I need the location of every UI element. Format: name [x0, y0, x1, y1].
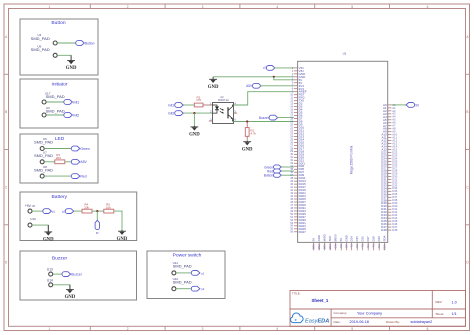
svg-text:R1: R1	[377, 244, 381, 248]
MCU U1 Mega 2560 Pro Mini body	[298, 61, 388, 242]
svg-text:D48: D48	[392, 228, 398, 232]
svg-text:D50: D50	[312, 244, 316, 250]
svg-text:SDA: SDA	[383, 244, 387, 250]
svg-text:4: 4	[276, 5, 278, 9]
wire Buzzer flag to chip	[277, 117, 294, 119]
svg-text:+9V: +9V	[25, 204, 32, 208]
svg-text:LED: LED	[55, 136, 65, 142]
net flag p2 (power switch)	[191, 286, 204, 291]
frame row ticks and letters	[4, 35, 470, 265]
svg-text:soldatrayan2: soldatrayan2	[411, 320, 433, 324]
ground (R1)	[242, 141, 253, 152]
svg-text:U13: U13	[47, 268, 53, 272]
Initiator block box	[20, 79, 98, 128]
net flag A5V (LED)	[71, 159, 87, 164]
svg-text:RS: RS	[345, 244, 349, 248]
svg-text:3: 3	[202, 327, 204, 331]
svg-text:Green: Green	[81, 147, 90, 151]
svg-text:PC817-1A: PC817-1A	[218, 99, 229, 102]
svg-text:Button: Button	[264, 174, 273, 178]
svg-text:B: B	[5, 110, 7, 114]
frame column ticks and numbers	[49, 4, 429, 331]
wire U7 to R3	[44, 161, 55, 163]
pad U17	[42, 91, 65, 104]
svg-text:170: 170	[196, 98, 201, 102]
svg-text:Init2: Init2	[73, 113, 79, 117]
resistor R4 10k	[82, 203, 92, 214]
svg-text:p2: p2	[201, 287, 205, 291]
wire R3 to A5V flag	[65, 161, 72, 163]
svg-text:Buzzer: Buzzer	[71, 273, 82, 277]
svg-text:Buzzer: Buzzer	[259, 116, 270, 120]
net flag Button	[76, 41, 95, 46]
svg-text:SMD_PAD: SMD_PAD	[34, 139, 53, 144]
pad U14	[47, 279, 53, 287]
LED block box	[20, 134, 98, 183]
svg-text:10k: 10k	[84, 205, 89, 209]
net flag Button (to chip)	[264, 173, 282, 177]
ground (Battery left)	[43, 225, 54, 242]
svg-text:U1: U1	[343, 52, 347, 56]
svg-text:EasyEDA: EasyEDA	[305, 319, 329, 325]
wire U8 to Red flag	[44, 175, 71, 177]
svg-text:TITLE:: TITLE:	[292, 292, 301, 296]
svg-text:10k: 10k	[106, 205, 111, 209]
svg-text:9V: 9V	[96, 232, 99, 235]
svg-text:GND: GND	[117, 237, 128, 242]
pad U10	[28, 217, 36, 227]
svg-text:p1: p1	[201, 271, 205, 275]
svg-text:T1: T1	[372, 244, 376, 248]
Battery block box	[20, 192, 137, 241]
svg-text:D51: D51	[323, 244, 327, 250]
net flag Red (to chip)	[267, 169, 281, 173]
svg-text:GND: GND	[43, 238, 54, 243]
ground (Button box)	[66, 55, 77, 71]
svg-text:1: 1	[49, 5, 51, 9]
MCU left pin column (pins 1-56 with names)	[290, 66, 307, 234]
net flag Init2	[64, 113, 80, 118]
pad U13	[47, 268, 53, 277]
MCU right pin column (A0-A15, D22-D48)	[381, 103, 398, 232]
svg-text:Initiator: Initiator	[51, 82, 67, 88]
junction node Init2/GND	[193, 112, 195, 114]
svg-text:Init2: Init2	[168, 112, 174, 116]
wire R2 to opto pin1	[203, 104, 213, 106]
svg-text:SMD_PAD: SMD_PAD	[46, 108, 65, 113]
svg-text:GND: GND	[189, 133, 200, 138]
net flag Green (to chip)	[264, 165, 281, 169]
svg-text:2: 2	[127, 5, 129, 9]
svg-text:SMD_PAD: SMD_PAD	[34, 153, 53, 158]
svg-text:4: 4	[276, 327, 278, 331]
pad U12	[172, 277, 192, 291]
svg-text:Your Company: Your Company	[357, 311, 382, 315]
wire U11 to p1 flag	[176, 272, 192, 274]
svg-text:GND: GND	[242, 147, 253, 152]
pad U5	[34, 137, 53, 151]
wire A5V flag to chip	[261, 85, 294, 87]
net flag Green	[71, 146, 90, 151]
junction node opto output	[246, 120, 248, 122]
svg-text:Init1: Init1	[168, 103, 174, 107]
wire U9 to p1 flag	[32, 210, 43, 212]
svg-text:Button: Button	[51, 20, 65, 26]
Buzzer block box	[20, 251, 137, 300]
net flag 9V (battery sense, vertical)	[95, 220, 99, 235]
svg-text:A5V: A5V	[81, 160, 88, 164]
svg-text:2: 2	[127, 327, 129, 331]
svg-text:5V: 5V	[339, 244, 343, 248]
wire opto pin6 to chip (output row)	[234, 121, 294, 123]
svg-text:1.0: 1.0	[452, 300, 457, 304]
wire Init1 to R2	[184, 104, 195, 106]
svg-text:200: 200	[56, 156, 61, 160]
svg-text:D047: D047	[299, 230, 307, 234]
wire U6 to ground	[57, 55, 71, 60]
svg-text:D52: D52	[317, 244, 321, 250]
wire chip A0 to 9V flag	[391, 104, 406, 106]
svg-text:U14: U14	[47, 279, 53, 283]
wire U17 to Init1 flag	[46, 101, 64, 103]
net flag Red	[71, 174, 86, 179]
EasyEDA logo	[291, 313, 330, 325]
svg-text:Power switch: Power switch	[173, 253, 202, 259]
pad U6	[31, 44, 58, 57]
pad U11	[172, 261, 192, 275]
svg-text:REV:: REV:	[436, 300, 443, 304]
wire U3 to Init2 flag	[46, 114, 64, 116]
op-amp U2 optocoupler PC817-1A	[209, 97, 237, 123]
Button block box	[20, 19, 98, 75]
wire p2 flag to R4	[74, 210, 82, 212]
svg-text:p1: p1	[52, 210, 55, 214]
net flag Init1 (center)	[168, 103, 183, 108]
svg-text:A5V: A5V	[246, 84, 253, 88]
wire GND rail drop to second GND pin	[274, 77, 294, 80]
svg-text:2019-06-18: 2019-06-18	[350, 320, 369, 324]
svg-text:5V: 5V	[339, 238, 343, 242]
svg-text:Date:: Date:	[334, 320, 341, 324]
svg-text:SCK: SCK	[328, 236, 332, 242]
svg-text:GND: GND	[317, 235, 321, 241]
Power switch block box	[147, 251, 225, 299]
net flag Buzzer (box)	[62, 272, 83, 277]
svg-text:MISO: MISO	[323, 233, 327, 241]
svg-text:GND: GND	[65, 295, 76, 300]
title block texts	[292, 292, 457, 325]
wire R5 to ground right	[114, 211, 122, 231]
svg-text:6: 6	[427, 327, 429, 331]
svg-text:SDA: SDA	[383, 236, 387, 242]
wire junction to 9V flag	[96, 211, 98, 220]
svg-text:GND: GND	[208, 85, 219, 90]
net flag Init2 (center)	[168, 111, 183, 116]
svg-text:D14: D14	[350, 236, 354, 242]
ground (Buzzer box)	[65, 285, 76, 300]
wire U14 to ground	[53, 285, 70, 290]
net flag p1 (power switch)	[191, 271, 204, 276]
svg-text:T3: T3	[350, 244, 354, 248]
svg-text:D17: D17	[366, 236, 370, 242]
wire U5 to Green flag	[44, 148, 71, 150]
svg-text:GND: GND	[345, 235, 349, 241]
resistor R5 10k	[104, 203, 114, 214]
wire opto pin4 to chip (collector to AREF row)	[234, 92, 294, 105]
svg-text:5V: 5V	[312, 238, 316, 242]
MCU bottom pin group 2	[350, 236, 387, 251]
wire U10 to ground	[32, 225, 48, 232]
svg-text:Init1: Init1	[73, 100, 79, 104]
svg-text:56: 56	[290, 230, 293, 234]
wire Green flag to chip	[281, 166, 294, 168]
svg-text:Button: Button	[85, 41, 95, 45]
svg-text:D16: D16	[361, 236, 365, 242]
pad U3	[42, 106, 65, 117]
junction node battery divider	[96, 210, 98, 212]
svg-text:SMD_PAD: SMD_PAD	[31, 36, 50, 41]
svg-text:Company:: Company:	[334, 311, 348, 315]
svg-text:5: 5	[351, 5, 353, 9]
resistor R2 170	[194, 95, 203, 107]
pad U9 +9V	[25, 204, 36, 213]
svg-text:e: e	[295, 318, 297, 322]
svg-text:GND: GND	[66, 66, 77, 71]
wire GND rail to chip	[213, 76, 294, 78]
resistor R1 4.7k (pull-down)	[245, 122, 256, 142]
svg-text:MOSI: MOSI	[334, 234, 338, 241]
wire U12 to p2 flag	[176, 288, 192, 290]
MCU bottom pin group 1	[312, 233, 349, 250]
resistor R3 200	[55, 153, 65, 164]
svg-text:T2: T2	[361, 244, 365, 248]
pad U8	[34, 165, 53, 178]
wire U13 to Buzzer flag	[53, 273, 62, 275]
svg-text:6: 6	[427, 5, 429, 9]
svg-text:D15: D15	[355, 236, 359, 242]
net flag 9V (chip A0)	[406, 103, 420, 108]
net flag Init1	[64, 100, 80, 105]
svg-text:SMD_PAD: SMD_PAD	[31, 47, 50, 52]
svg-text:SMD_PAD: SMD_PAD	[34, 168, 53, 173]
svg-text:D18: D18	[372, 236, 376, 242]
svg-text:Battery: Battery	[52, 194, 68, 200]
svg-text:R3: R3	[355, 244, 359, 248]
wire U4 to Button flag	[57, 42, 76, 44]
wire Init2 to opto pin2	[184, 112, 213, 114]
svg-text:Buzzer: Buzzer	[52, 255, 68, 261]
svg-text:GN: GN	[334, 244, 338, 248]
svg-text:Sheet:: Sheet:	[436, 312, 445, 316]
wire Red flag to chip	[281, 170, 294, 172]
svg-text:1: 1	[49, 327, 51, 331]
wire p2 flag to chip VIN	[274, 67, 294, 69]
svg-text:Mega 2560 Pro Mini: Mega 2560 Pro Mini	[349, 145, 353, 174]
ground (Battery right)	[117, 230, 128, 242]
wire R4 to R5 with junction	[92, 210, 104, 212]
svg-text:Red: Red	[81, 175, 87, 179]
svg-text:D53: D53	[328, 244, 332, 250]
svg-text:5: 5	[351, 327, 353, 331]
net flag A5V (to chip)	[246, 83, 261, 88]
ground (chip GND rail)	[208, 77, 219, 90]
pad U7	[34, 151, 53, 164]
svg-text:4.7k: 4.7k	[250, 131, 256, 135]
svg-text:D48: D48	[381, 228, 387, 232]
net flag p2 (battery)	[62, 209, 74, 214]
ground (opto input)	[189, 126, 200, 138]
svg-text:SMD_PAD: SMD_PAD	[173, 280, 192, 285]
net flag p1 (battery)	[43, 209, 56, 214]
svg-text:Drawn By:: Drawn By:	[386, 320, 400, 324]
wire junction down to ground	[193, 113, 195, 127]
svg-text:U10: U10	[30, 217, 36, 221]
svg-text:R2: R2	[366, 244, 370, 248]
svg-text:D19: D19	[377, 236, 381, 242]
net flag p2 (to chip VIN)	[263, 65, 275, 70]
svg-text:1/1: 1/1	[452, 312, 457, 316]
svg-text:SMD_PAD: SMD_PAD	[46, 94, 65, 99]
svg-text:3: 3	[202, 5, 204, 9]
svg-text:Sheet_1: Sheet_1	[312, 298, 329, 303]
net flag Buzzer (to chip)	[259, 115, 278, 120]
svg-text:SMD_PAD: SMD_PAD	[173, 264, 192, 269]
svg-text:B: B	[466, 110, 468, 114]
junction node GND rail	[273, 76, 275, 78]
pad U4	[31, 33, 58, 45]
title block outline	[290, 291, 466, 327]
wire Button flag to chip	[281, 174, 294, 176]
